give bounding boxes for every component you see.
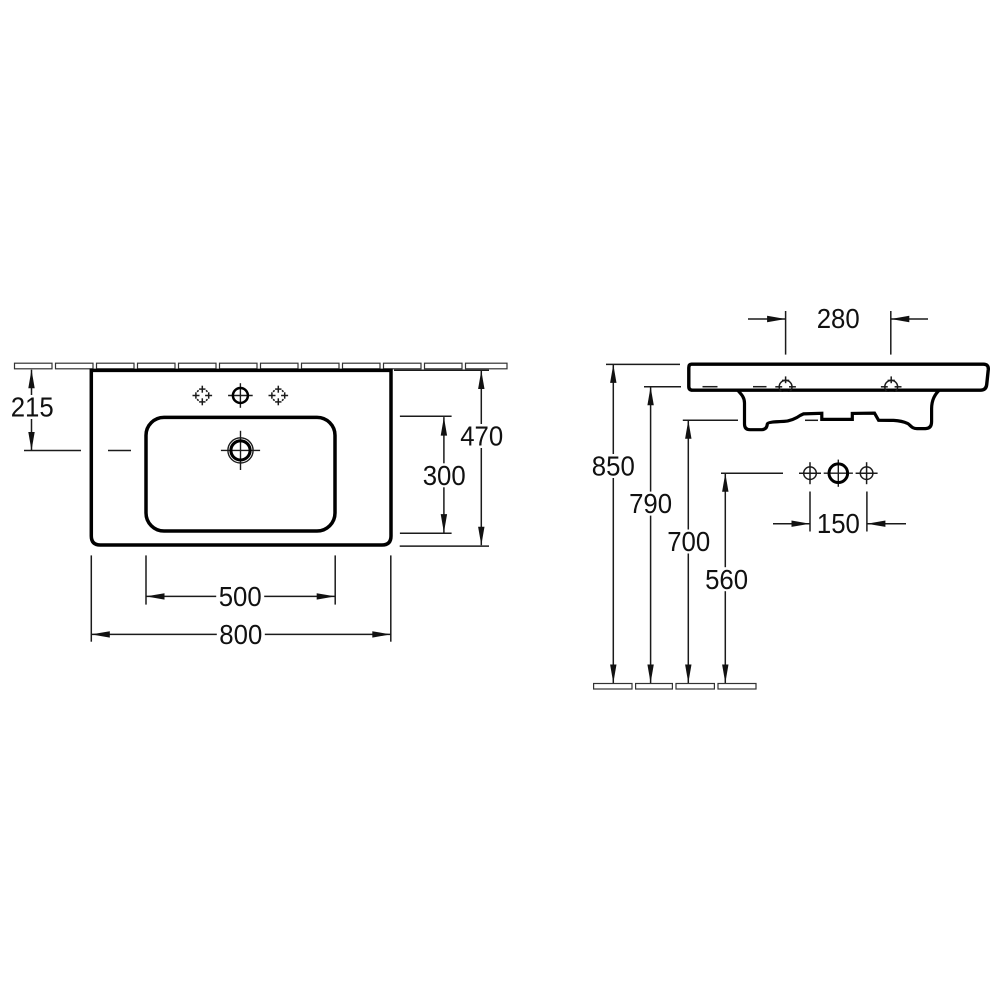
dim 470 <box>394 370 489 546</box>
dim 215 <box>31 370 33 451</box>
dim 500 <box>146 555 335 604</box>
svg-text:470: 470 <box>460 421 503 452</box>
wall hole left <box>799 462 821 484</box>
wall hole middle <box>824 460 853 487</box>
tap knockout right <box>269 386 289 406</box>
dim 300 <box>400 416 452 533</box>
dim 560 <box>721 473 783 683</box>
dash below profile <box>805 419 818 421</box>
svg-text:850: 850 <box>592 451 635 482</box>
dim 700 <box>683 420 738 683</box>
slab <box>689 364 989 390</box>
svg-text:280: 280 <box>817 303 860 334</box>
slab centerline dashes <box>703 386 767 388</box>
tap knockout left <box>193 386 213 406</box>
dim 800 <box>91 555 391 641</box>
drain <box>221 431 260 470</box>
svg-text:800: 800 <box>219 619 262 650</box>
svg-text:700: 700 <box>667 526 710 557</box>
tap hole middle <box>228 383 253 408</box>
slab mounting hole right <box>881 376 902 393</box>
dim 850 <box>606 364 680 683</box>
clip patches under slab line <box>777 392 794 395</box>
svg-text:300: 300 <box>423 460 466 491</box>
bowl <box>146 417 335 531</box>
wall hole right <box>856 462 878 484</box>
dim 150 <box>773 492 906 532</box>
dim 280 <box>748 311 928 355</box>
svg-text:790: 790 <box>629 488 672 519</box>
centerline <box>24 450 131 452</box>
under-basin profile <box>737 389 940 430</box>
floor hatch band <box>594 684 756 690</box>
svg-text:500: 500 <box>219 581 262 612</box>
svg-text:560: 560 <box>705 564 748 595</box>
wall hatch band <box>15 363 508 369</box>
svg-text:150: 150 <box>817 508 860 539</box>
basin outline <box>91 370 391 545</box>
svg-text:215: 215 <box>11 392 54 423</box>
dim 790 <box>644 387 681 683</box>
slab mounting hole left <box>775 376 796 393</box>
